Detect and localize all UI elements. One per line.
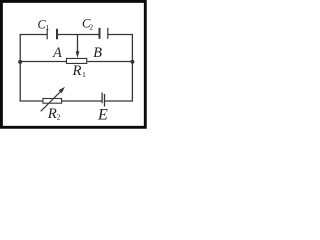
battery E long plate (104, 94, 106, 107)
wire top-right (C2 to right corner) (108, 34, 133, 36)
capacitor C1 (47, 29, 57, 40)
capacitor C2 (100, 28, 108, 39)
wire top-middle (C1 to C2) (57, 34, 100, 36)
wiper arrow from top wire to R1 (76, 35, 80, 59)
wire bottom-middle (R2 to battery) (62, 100, 102, 102)
rheostat R2 body (43, 99, 62, 104)
svg-text:R: R (72, 63, 82, 79)
svg-text:R: R (47, 106, 57, 122)
battery E short plate (101, 93, 103, 104)
wire middle-right (node B side) (87, 61, 132, 63)
junction dot right (130, 60, 134, 64)
svg-text:1: 1 (82, 70, 86, 79)
wire right vertical (131, 34, 133, 102)
resistor R1 (potentiometer body) (66, 58, 86, 63)
wire top-left (corner to C1) (20, 34, 47, 36)
svg-text:B: B (93, 45, 102, 61)
wire bottom-left (corner to R2) (20, 100, 43, 102)
junction dot left (18, 60, 22, 64)
wire bottom-right (battery to corner) (104, 100, 132, 102)
wire middle-left (node A side) (20, 61, 66, 63)
svg-text:E: E (97, 107, 108, 124)
svg-text:1: 1 (46, 23, 50, 32)
svg-text:A: A (52, 45, 62, 61)
wire left vertical (19, 34, 21, 102)
border frame (1, 1, 145, 127)
svg-text:2: 2 (57, 113, 61, 122)
rheostat R2 arrow (41, 87, 65, 111)
svg-text:2: 2 (89, 23, 93, 32)
